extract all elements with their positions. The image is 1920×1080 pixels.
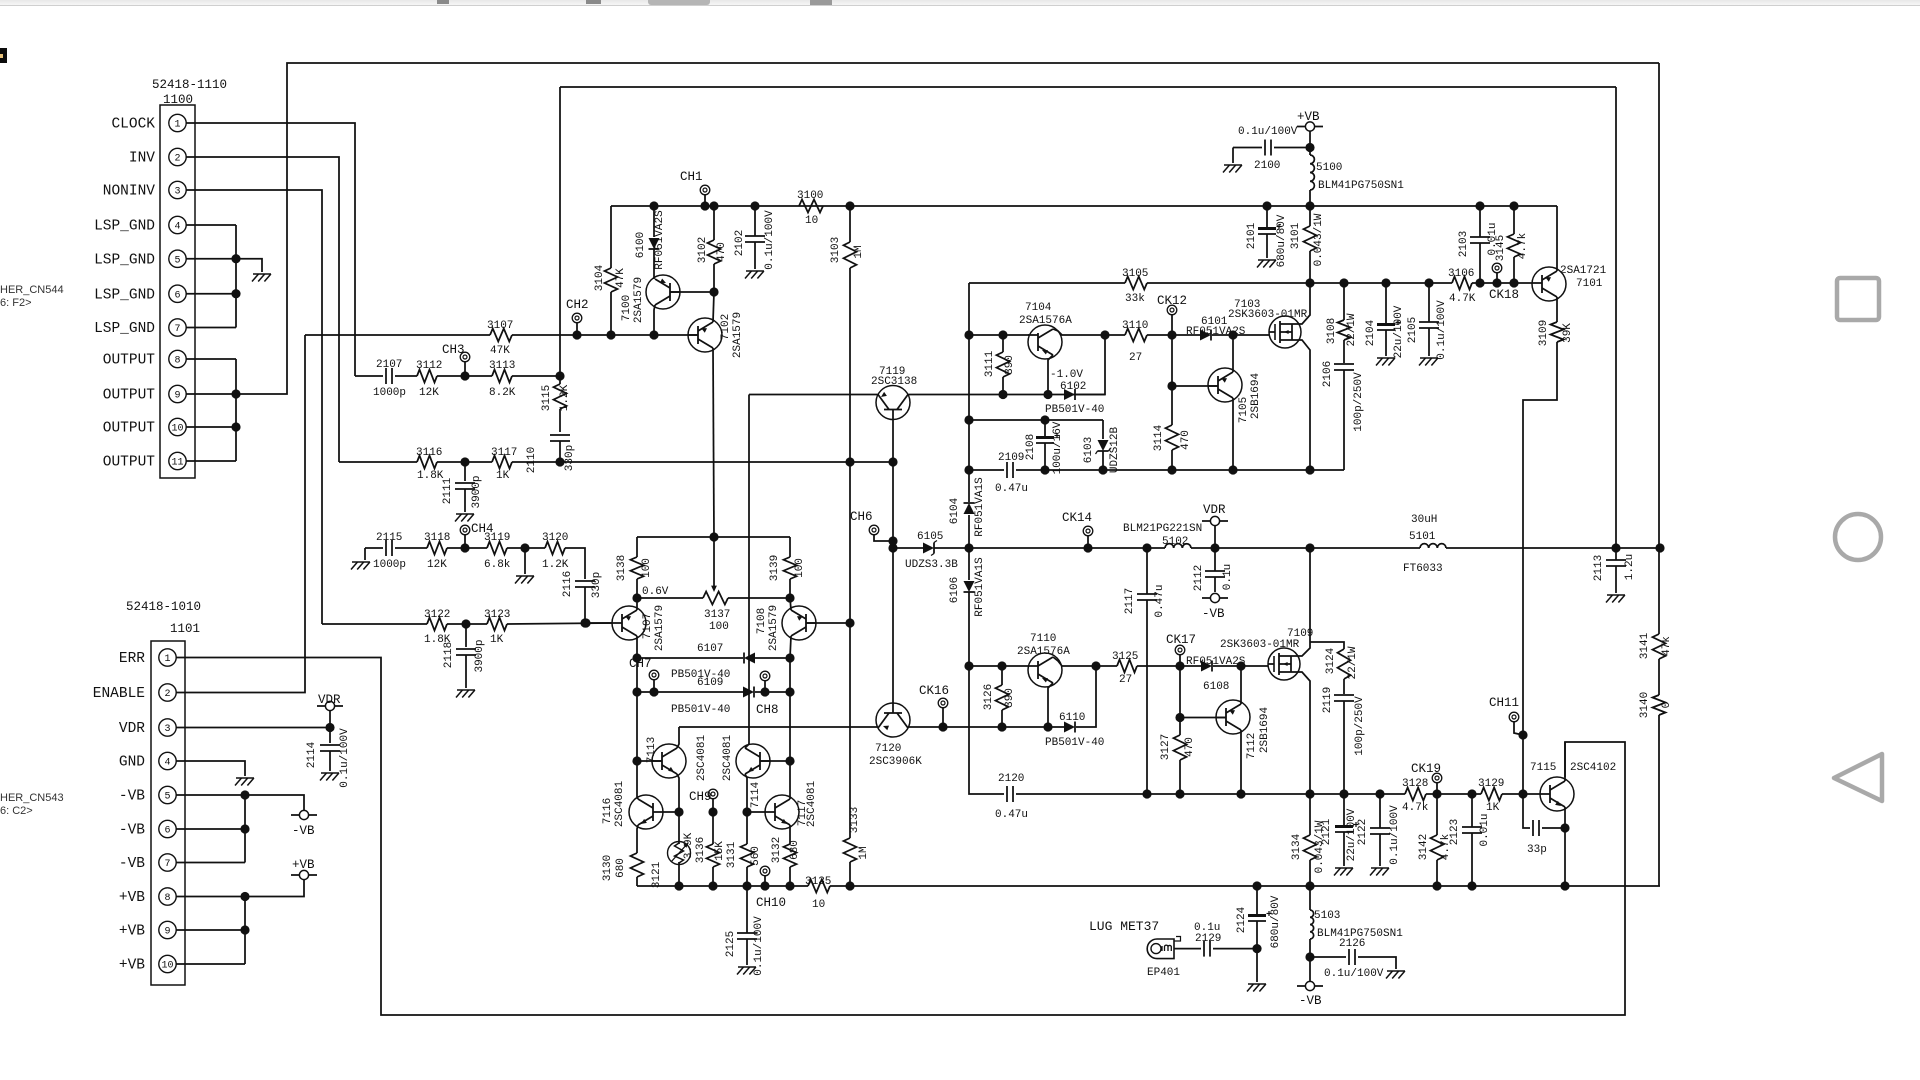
svg-text:BLM41PG750SN1: BLM41PG750SN1 (1318, 180, 1404, 192)
svg-text:7: 7 (164, 859, 170, 870)
wire 7110 base row (969, 665, 1028, 667)
junction (708, 807, 717, 816)
svg-text:3145: 3145 (1495, 235, 1507, 261)
wire (653, 206, 655, 237)
svg-text:4.7K: 4.7K (1449, 293, 1476, 305)
svg-text:8: 8 (174, 356, 180, 367)
capacitor 2115 (373, 532, 406, 571)
junction (1305, 201, 1314, 210)
wire 7116 base (663, 811, 679, 813)
svg-text:2124: 2124 (1236, 906, 1248, 933)
svg-text:6103: 6103 (1083, 437, 1095, 463)
wire 7101 emitter (1556, 297, 1558, 322)
wire (1310, 547, 1420, 549)
svg-text:OUTPUT: OUTPUT (103, 353, 156, 369)
ground (1258, 259, 1276, 261)
wire row 727 (679, 726, 877, 728)
wire (512, 461, 893, 463)
svg-text:0.1u/100V: 0.1u/100V (764, 210, 776, 270)
svg-text:10: 10 (805, 215, 818, 227)
resistor 3145 (1495, 232, 1529, 261)
transistor 7120 2SC3906K (869, 703, 922, 768)
resistor 3127 (1160, 734, 1196, 760)
wire node CH3 (437, 375, 492, 377)
wire 7102 emitter (713, 292, 714, 322)
svg-text:3118: 3118 (424, 532, 450, 544)
wire (1343, 701, 1345, 794)
capacitor 2103 (1458, 222, 1499, 257)
inductor 5100 BLM41PG750SN1 (1310, 155, 1404, 192)
wire (849, 623, 851, 838)
svg-text:2SC4081: 2SC4081 (722, 735, 734, 782)
svg-text:1.8K: 1.8K (417, 470, 444, 482)
svg-text:3111: 3111 (984, 350, 996, 377)
svg-text:3105: 3105 (1122, 268, 1148, 280)
junction (1040, 415, 1049, 424)
ground (321, 772, 339, 774)
svg-text:2SA1579: 2SA1579 (768, 605, 780, 651)
junction (1381, 278, 1390, 287)
junction (1043, 722, 1052, 731)
wire 7105 emitter (1232, 335, 1234, 372)
wire (559, 376, 561, 384)
wire (1214, 526, 1216, 548)
svg-text:3121: 3121 (651, 861, 663, 888)
wire (1179, 760, 1181, 794)
terminal +VB (299, 870, 308, 879)
wire (1146, 600, 1148, 794)
wire (395, 547, 427, 549)
resistor 3122 (424, 609, 451, 646)
svg-text:3136: 3136 (695, 837, 707, 863)
junction (1175, 713, 1184, 722)
svg-text:3114: 3114 (1153, 424, 1165, 451)
svg-text:30uH: 30uH (1411, 514, 1437, 526)
junction (998, 390, 1007, 399)
wire (704, 194, 706, 206)
wire row 283 (1310, 282, 1452, 284)
wire (637, 597, 703, 599)
wire (1471, 794, 1473, 827)
svg-text:CH9: CH9 (689, 790, 712, 804)
wire (1658, 548, 1660, 634)
testpoint CH9 (689, 789, 718, 804)
wire (1171, 314, 1173, 335)
resistor 3130 (602, 853, 644, 881)
zener 6103 UDZS12B (1083, 427, 1121, 474)
svg-text:LUG MET37: LUG MET37 (1089, 919, 1159, 934)
junction (1043, 390, 1052, 399)
junction (997, 661, 1006, 670)
junction (649, 330, 658, 339)
capacitor 2117 (1124, 584, 1166, 617)
transistor 7105 2SB1694 (1208, 368, 1262, 423)
wire (1343, 283, 1345, 320)
svg-text:0.1u: 0.1u (1222, 564, 1234, 590)
svg-text:10: 10 (161, 961, 173, 972)
wire (1001, 666, 1003, 685)
nav icon triangle (1834, 754, 1882, 801)
svg-text:22/1W: 22/1W (1346, 313, 1358, 346)
wire (1232, 148, 1234, 164)
svg-text:RF051VA1S: RF051VA1S (974, 557, 986, 617)
svg-text:2: 2 (174, 154, 180, 165)
wire (893, 547, 923, 549)
wire (1615, 566, 1617, 593)
terminal VDR (1210, 516, 1219, 525)
svg-text:2106: 2106 (1322, 361, 1334, 387)
svg-text:330p: 330p (591, 572, 603, 598)
wire (678, 812, 680, 844)
resistor 3108 (1326, 313, 1358, 346)
transistor 7100 2SA1579 (621, 275, 680, 323)
wire (1002, 377, 1004, 395)
wire (1436, 782, 1438, 794)
wire 7114 emitter (745, 774, 747, 812)
junction (460, 543, 469, 552)
svg-text:2102: 2102 (734, 230, 746, 256)
wire (636, 877, 638, 886)
wire (1179, 666, 1181, 735)
svg-text:RF051VA1S: RF051VA1S (974, 477, 986, 537)
wire (1076, 666, 1096, 727)
wire (968, 515, 970, 580)
resistor 3120 (542, 532, 569, 571)
wire (746, 867, 748, 886)
wire 7103 source (1292, 340, 1310, 470)
wire row 283 (1147, 282, 1310, 284)
svg-text:39K: 39K (1562, 323, 1574, 343)
wire (1496, 272, 1498, 283)
svg-text:3900p: 3900p (471, 475, 483, 508)
junction (1560, 881, 1569, 890)
transistor 7102 2SA1579 (688, 312, 744, 358)
capacitor 2116 (562, 571, 603, 598)
svg-text:3: 3 (174, 187, 180, 198)
wire (464, 462, 466, 481)
wire pin11 (186, 460, 236, 462)
transistor 7108 2SA1579 (756, 605, 816, 651)
junction (785, 593, 794, 602)
svg-text:4: 4 (174, 222, 180, 233)
svg-text:3109: 3109 (1538, 320, 1550, 346)
resistor 3119 (484, 532, 511, 571)
svg-text:1: 1 (164, 654, 170, 665)
svg-text:3107: 3107 (487, 320, 513, 332)
wire (464, 534, 466, 548)
capacitor 2124 (1236, 895, 1282, 948)
capacitor 2129 (1194, 922, 1221, 957)
wire (507, 623, 612, 624)
svg-text:2103: 2103 (1458, 231, 1470, 257)
junction (1339, 278, 1348, 287)
junction (461, 619, 470, 628)
svg-text:LSP_GND: LSP_GND (94, 321, 155, 337)
svg-text:2126: 2126 (1339, 938, 1365, 950)
svg-text:1.2K: 1.2K (542, 559, 569, 571)
svg-text:3126: 3126 (983, 684, 995, 710)
svg-text:2125: 2125 (725, 931, 737, 957)
ground (1335, 867, 1353, 869)
wire (1171, 450, 1173, 470)
resistor 3132 (771, 837, 801, 867)
svg-text:CH7: CH7 (629, 657, 652, 671)
svg-text:3128: 3128 (1402, 778, 1428, 790)
svg-text:100p/250V: 100p/250V (1354, 696, 1366, 756)
diode 6101 RF051VA2S (1186, 316, 1246, 341)
svg-text:RF051VA2S: RF051VA2S (654, 210, 666, 270)
capacitor 2102 (734, 210, 776, 270)
wire ERR loop (176, 658, 1625, 1016)
wire 7113 collector (677, 727, 679, 748)
wire (1471, 833, 1473, 886)
junction (845, 201, 854, 210)
wire 7110 collector (1053, 657, 1096, 666)
svg-text:2SC3906K: 2SC3906K (869, 756, 922, 768)
junction (1492, 278, 1501, 287)
transistor 7107 2SA1579 (612, 605, 666, 651)
wire (637, 797, 638, 799)
wire (1426, 793, 1481, 795)
wire (1385, 330, 1387, 356)
testpoint CK12 (1157, 294, 1187, 315)
junction (888, 457, 897, 466)
wire (968, 283, 970, 502)
svg-text:VDR: VDR (119, 721, 145, 737)
resistor 3123 (484, 609, 510, 646)
capacitor 2112 (1193, 564, 1234, 591)
wire 7105 base (1172, 385, 1218, 387)
svg-text:3134: 3134 (1291, 833, 1303, 860)
wire 7107 emitter (636, 598, 638, 610)
junction (1098, 465, 1107, 474)
svg-text:6110: 6110 (1059, 712, 1085, 724)
svg-text:0.1u/100V: 0.1u/100V (339, 728, 351, 788)
wire to -VB (245, 795, 304, 810)
wire 7108 collector (790, 636, 791, 658)
svg-text:6105: 6105 (917, 531, 943, 543)
wire (329, 751, 331, 771)
svg-text:100u/16V: 100u/16V (1052, 421, 1064, 474)
capacitor 33p (1527, 820, 1547, 856)
wire (512, 375, 560, 377)
svg-text:+VB: +VB (119, 924, 145, 940)
svg-text:1000p: 1000p (373, 559, 406, 571)
junction (1475, 201, 1484, 210)
wire pin7 (186, 327, 236, 329)
wire (365, 547, 383, 549)
diode 6109 PB501V-40 (671, 677, 754, 716)
junction (1091, 661, 1100, 670)
junction (1252, 881, 1261, 890)
junction (708, 881, 717, 890)
wire (712, 798, 714, 812)
junction (674, 807, 683, 816)
svg-text:2SA1579: 2SA1579 (633, 277, 645, 323)
wire (849, 862, 851, 886)
wire pin8 (176, 896, 245, 898)
wire (1214, 548, 1216, 571)
wire (1087, 535, 1089, 548)
lug EP401 LUG MET37 (1089, 919, 1181, 979)
svg-text:2SA1721: 2SA1721 (1560, 265, 1607, 277)
junction (742, 881, 751, 890)
diode 6102 PB501V-40 (1045, 369, 1104, 416)
junction (632, 653, 641, 662)
wire (1343, 679, 1345, 694)
wire (1044, 443, 1046, 470)
testpoint CK19 (1411, 762, 1442, 783)
svg-text:-1.0V: -1.0V (1050, 369, 1083, 381)
wire 7107 collector (636, 636, 638, 658)
wire VDR (176, 727, 330, 729)
junction (845, 457, 854, 466)
svg-text:ERR: ERR (119, 651, 145, 667)
resistor 3114 (1153, 424, 1192, 451)
wire (1171, 335, 1173, 425)
transistor 7110 2SA1576A (1017, 633, 1070, 687)
wire (789, 797, 791, 799)
nav icon circle (1835, 514, 1881, 560)
wire (395, 375, 417, 377)
inductor 5103 BLM41PG750SN1 (1310, 910, 1403, 940)
resistor 3141 (1639, 632, 1673, 659)
wire pin5 (186, 258, 236, 260)
svg-text:0.043/1W: 0.043/1W (1313, 213, 1325, 266)
wire (1436, 794, 1438, 835)
wire (465, 624, 467, 647)
svg-text:3140: 3140 (1639, 692, 1651, 718)
wire pin6 (186, 293, 236, 295)
ground (253, 273, 271, 275)
svg-text:-VB: -VB (119, 856, 145, 872)
wire 7119 base to 7120 (892, 419, 894, 703)
junction (964, 330, 973, 339)
svg-text:100: 100 (641, 558, 653, 578)
wire (746, 812, 748, 844)
capacitor 2119 (1322, 687, 1366, 756)
ground (1371, 867, 1389, 869)
diode 6100 RF051VA2S (635, 210, 666, 270)
svg-text:CH3: CH3 (442, 343, 465, 357)
svg-text:CK19: CK19 (1411, 762, 1441, 776)
junction (555, 457, 564, 466)
wire node CH4 (447, 547, 487, 549)
wire (712, 812, 714, 844)
svg-text:-VB: -VB (119, 823, 145, 839)
wire (789, 658, 791, 797)
resistor 3135 (805, 876, 831, 911)
wire (849, 206, 851, 242)
svg-text:2100: 2100 (1254, 160, 1280, 172)
wire to 3124 (1310, 642, 1344, 649)
svg-text:330p: 330p (564, 445, 576, 471)
wire (1105, 334, 1125, 336)
svg-text:33k: 33k (1125, 293, 1145, 305)
svg-text:52418-1010: 52418-1010 (126, 600, 201, 614)
svg-text:3123: 3123 (484, 609, 510, 621)
svg-text:3119: 3119 (484, 532, 510, 544)
resistor 3111 (984, 350, 1016, 377)
wire +VB bus (244, 897, 246, 965)
wire (1472, 282, 1532, 284)
wire (464, 361, 466, 376)
wire row 548 (969, 547, 1082, 549)
wire node CK12 (1147, 334, 1200, 336)
capacitor 2105 (1407, 300, 1448, 360)
junction (632, 756, 641, 765)
resistor 3136 (695, 837, 726, 867)
svg-text:-VB: -VB (292, 824, 315, 838)
svg-text:2SA1579: 2SA1579 (654, 605, 666, 651)
svg-text:2111: 2111 (442, 477, 454, 504)
wire 7113 base (637, 760, 662, 762)
svg-text:3113: 3113 (489, 360, 515, 372)
wire (559, 409, 561, 432)
junction (1518, 789, 1527, 798)
svg-text:680: 680 (615, 858, 627, 878)
wire (1309, 251, 1311, 283)
connector 1100 (52418-1110) (94, 78, 227, 478)
svg-text:7100: 7100 (621, 295, 633, 321)
terminal +VB (1305, 122, 1314, 131)
svg-text:3108: 3108 (1326, 318, 1338, 344)
capacitor 2114 (306, 728, 351, 788)
ground (738, 966, 756, 968)
ground (457, 689, 475, 691)
wire (1513, 206, 1515, 234)
svg-text:0.1u/100V: 0.1u/100V (1436, 300, 1448, 360)
wire 7113 emitter (677, 774, 679, 812)
wire (465, 655, 467, 688)
capacitor 2126 (1324, 938, 1384, 980)
capacitor 2123 (1449, 813, 1491, 846)
svg-text:3100: 3100 (797, 190, 823, 202)
wire (610, 292, 612, 335)
transistor 7104 2SA1576A (1019, 302, 1072, 359)
wire row 420 (969, 419, 1103, 421)
svg-text:3142: 3142 (1418, 834, 1430, 860)
junction (785, 687, 794, 696)
wire (586, 622, 612, 624)
junction (938, 722, 947, 731)
svg-text:0.6V: 0.6V (642, 586, 669, 598)
testpoint CH4 (460, 522, 493, 536)
wire (755, 657, 790, 659)
junction (1432, 789, 1441, 798)
svg-text:1: 1 (174, 120, 180, 131)
svg-text:2108: 2108 (1025, 434, 1037, 460)
svg-text:7113: 7113 (646, 737, 658, 763)
svg-text:52418-1110: 52418-1110 (152, 78, 227, 92)
capacitor 2101 (1246, 214, 1288, 267)
svg-text:2104: 2104 (1365, 319, 1377, 346)
ground (1420, 357, 1438, 359)
MOSFET 7103 2SK3603-01MR (1228, 299, 1308, 348)
svg-text:47K: 47K (615, 268, 627, 288)
resistor 3105 (1122, 268, 1148, 305)
wire (1479, 243, 1481, 283)
wire 7117 base (747, 811, 765, 813)
junction (964, 415, 973, 424)
wire 7108 base (806, 622, 850, 624)
svg-text:GND: GND (119, 755, 145, 771)
junction (240, 892, 249, 901)
junction (888, 543, 897, 552)
ground (236, 777, 254, 779)
svg-text:CK16: CK16 (919, 684, 949, 698)
svg-text:1M: 1M (853, 245, 865, 258)
